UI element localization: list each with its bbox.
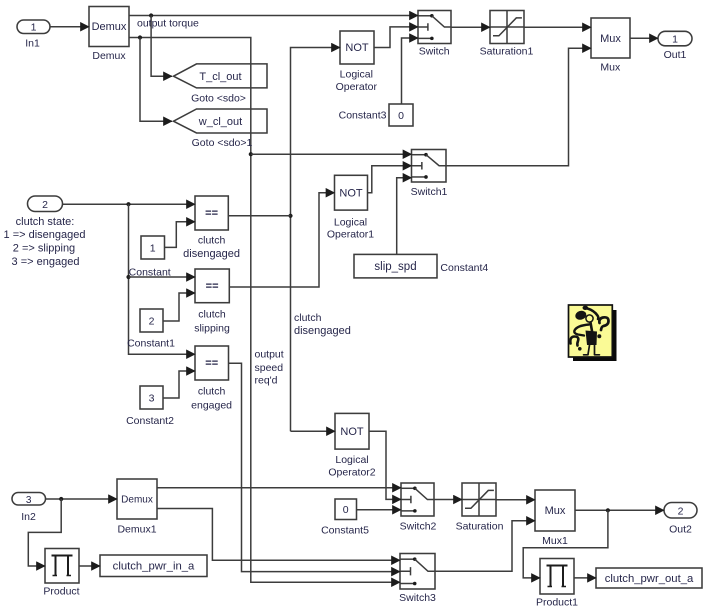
svg-text:Out2: Out2 [669, 524, 692, 536]
svg-text:0: 0 [398, 110, 404, 122]
svg-text:In1: In1 [25, 38, 40, 50]
svg-text:Switch3: Switch3 [399, 592, 436, 604]
svg-text:3: 3 [149, 393, 155, 405]
svg-text:1: 1 [150, 243, 156, 255]
svg-text:Demux: Demux [92, 21, 127, 33]
svg-text:==: == [206, 281, 219, 293]
svg-text:1: 1 [31, 21, 37, 33]
svg-text:1: 1 [672, 33, 678, 45]
svg-text:0: 0 [343, 504, 349, 516]
svg-text:clutch: clutch [198, 235, 226, 247]
svg-text:2: 2 [42, 199, 48, 211]
svg-text:output: output [255, 349, 284, 361]
svg-text:Logical: Logical [340, 69, 373, 81]
svg-text:Mux: Mux [545, 505, 566, 517]
svg-text:2: 2 [149, 316, 155, 328]
svg-text:Constant2: Constant2 [126, 415, 174, 427]
svg-text:Out1: Out1 [664, 49, 687, 61]
svg-text:Constant4: Constant4 [440, 262, 488, 274]
svg-text:clutch_pwr_out_a: clutch_pwr_out_a [605, 573, 694, 585]
svg-text:slip_spd: slip_spd [374, 261, 416, 273]
svg-text:Operator1: Operator1 [327, 228, 374, 240]
svg-text:T_cl_out: T_cl_out [199, 71, 241, 83]
svg-text:w_cl_out: w_cl_out [198, 116, 242, 128]
svg-text:clutch: clutch [198, 308, 226, 320]
svg-text:Constant: Constant [129, 266, 171, 278]
svg-text:Switch1: Switch1 [411, 186, 448, 198]
svg-text:Switch: Switch [419, 46, 450, 58]
svg-text:Mux: Mux [600, 33, 621, 45]
svg-text:Product: Product [43, 585, 79, 597]
svg-text:Switch2: Switch2 [400, 521, 437, 533]
svg-text:Demux1: Demux1 [117, 524, 156, 536]
svg-text:2: 2 [678, 505, 684, 517]
svg-text:Constant1: Constant1 [127, 338, 175, 350]
svg-text:Product1: Product1 [536, 597, 578, 609]
svg-text:clutch state:: clutch state: [16, 216, 75, 228]
svg-text:disengaged: disengaged [294, 325, 351, 337]
svg-text:clutch_pwr_in_a: clutch_pwr_in_a [113, 561, 195, 573]
svg-text:clutch: clutch [294, 312, 322, 324]
svg-text:Logical: Logical [334, 216, 367, 228]
svg-text:speed: speed [255, 362, 284, 374]
svg-text:engaged: engaged [191, 400, 232, 412]
svg-text:Logical: Logical [335, 454, 368, 466]
svg-text:clutch: clutch [198, 386, 226, 398]
svg-text:Operator: Operator [336, 81, 378, 93]
svg-text:Operator2: Operator2 [328, 466, 375, 478]
svg-text:Goto <sdo>: Goto <sdo> [191, 92, 246, 104]
svg-text:req'd: req'd [255, 374, 278, 386]
svg-text:==: == [205, 358, 218, 370]
svg-text:2 => slipping: 2 => slipping [13, 243, 75, 255]
svg-text:1 => disengaged: 1 => disengaged [4, 229, 86, 241]
svg-text:Saturation1: Saturation1 [480, 46, 534, 58]
svg-text:disengaged: disengaged [183, 248, 240, 260]
svg-text:Mux: Mux [600, 62, 621, 74]
svg-text:3: 3 [26, 495, 32, 506]
svg-text:NOT: NOT [345, 42, 369, 54]
svg-text:NOT: NOT [340, 426, 364, 438]
svg-text:Demux: Demux [92, 50, 126, 62]
svg-text:Goto <sdo>1: Goto <sdo>1 [192, 137, 253, 149]
svg-text:Demux: Demux [121, 495, 153, 506]
svg-text:slipping: slipping [194, 323, 230, 335]
svg-text:Constant3: Constant3 [339, 109, 387, 121]
svg-text:output torque: output torque [137, 17, 199, 29]
svg-text:==: == [205, 208, 218, 220]
svg-text:Saturation: Saturation [456, 521, 504, 533]
svg-text:NOT: NOT [339, 188, 363, 200]
svg-text:Constant5: Constant5 [321, 524, 369, 536]
svg-text:3 => engaged: 3 => engaged [12, 256, 80, 268]
svg-text:Mux1: Mux1 [542, 535, 568, 547]
svg-text:In2: In2 [21, 511, 36, 523]
